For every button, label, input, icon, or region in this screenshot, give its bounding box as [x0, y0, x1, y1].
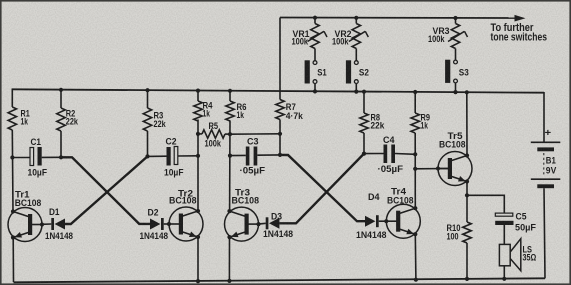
wire: R2 column: [60, 90, 62, 108]
wire: positive supply rail (top horizontal): [12, 89, 544, 92]
wire: tone bus (top rail) with arrow: [280, 17, 517, 20]
wire: link from R5 junction to R7 column: [230, 133, 280, 135]
resistor R5 100k (horizontal): [198, 121, 230, 150]
node: C3 right junction: [278, 153, 282, 157]
wire: R9 / Tr4 collector column: [414, 92, 416, 113]
node: C4 right junction: [413, 152, 417, 156]
wire: Tr5 emitter to node: [466, 182, 468, 196]
wire: R4 / Tr2 collector column: [197, 91, 199, 102]
wire: cross-coupling diagonal from R2/C1 node to D2: [61, 157, 150, 224]
node: R2/C1 junction: [59, 155, 63, 159]
potentiometer VR3 100k: [428, 16, 468, 60]
wire: battery column top: [543, 92, 545, 142]
resistor R4 1k: [194, 101, 213, 122]
wire: Tr2 emitter to ground: [197, 237, 199, 281]
resistor R6 1k: [226, 101, 247, 121]
node: R5 left junction on Tr2 collector column: [196, 132, 200, 136]
wire: Tr3 emitter to ground: [228, 237, 230, 281]
resistor R1 1k: [8, 107, 30, 130]
wire: Tr5 base lead: [415, 168, 448, 170]
potentiometer VR2 100k: [332, 16, 368, 61]
wire: cross-coupling diagonal from R3/C2 node to D1: [65, 156, 148, 224]
wire: R3 column: [147, 90, 149, 108]
resistor R2 22k: [57, 108, 79, 131]
wire: C5 to loudspeaker: [503, 225, 505, 244]
transistor Tr2 BC108: [167, 188, 203, 241]
wire: emitter node to C5 branch: [467, 195, 504, 213]
switch S1: [305, 60, 328, 93]
node: Tr5 base junction: [413, 167, 417, 171]
wire: R6 / Tr3 collector column: [229, 91, 231, 101]
loudspeaker LS 35ohm: [499, 239, 536, 271]
transistor Tr5 BC108: [436, 131, 472, 186]
node: link/R7 junction: [278, 132, 282, 136]
wire: Tr1 emitter to ground rail: [12, 238, 14, 283]
wire: R7 column (from tone bus corner down): [279, 18, 281, 100]
wire: ground rail (bottom horizontal): [14, 278, 546, 282]
wire: cross-coupling diagonal from C3/R7 node to D4: [280, 155, 365, 221]
switch S3: [445, 60, 469, 94]
resistor R10 100: [447, 195, 472, 279]
transistor Tr1 BC108: [8, 190, 44, 242]
switch S2: [346, 60, 369, 93]
resistor R9 1k: [411, 113, 430, 134]
battery B1 9V: [531, 128, 561, 188]
capacitor C1 10uF: [12, 137, 61, 179]
capacitor C5 50uF: [495, 212, 536, 234]
wire: battery column bottom: [544, 188, 545, 278]
wire: left column (Tr1 collector / R1 / C1 node): [11, 89, 13, 108]
wire: cross-coupling diagonal from C4/R8 node to D3: [279, 154, 364, 224]
node: C3 left junction: [228, 154, 232, 158]
resistor R3 22k: [143, 108, 166, 131]
potentiometer VR1 100k: [292, 16, 328, 61]
wire: loudspeaker to ground rail: [503, 266, 505, 279]
node: emitter / R10 / C5 junction: [465, 193, 469, 197]
diode D3 1N4148: [259, 211, 294, 240]
resistor R7 4.7k: [276, 100, 304, 123]
node: R3/C2 junction: [145, 154, 149, 158]
wire: Tr4 emitter to ground: [414, 234, 417, 280]
capacitor C3 .05uF: [230, 137, 280, 177]
capacitor C2 10uF: [148, 137, 199, 179]
resistor R8 22k: [360, 113, 385, 134]
capacitor C4 .05uF: [364, 135, 415, 175]
node: C4 left junction: [362, 152, 366, 156]
wire: Tr5 collector column: [466, 92, 468, 155]
transistor Tr3 BC108: [225, 187, 261, 241]
diode D1 1N4148: [42, 207, 74, 242]
wire: R8 column: [363, 92, 365, 113]
node: C1 left junction: [10, 155, 14, 159]
node: R5 right junction: [228, 132, 232, 136]
transistor Tr4 BC108: [384, 187, 420, 239]
node: C2 right junction: [196, 154, 200, 158]
diode D4 1N4148: [356, 192, 387, 241]
diode D2 1N4148: [140, 208, 170, 243]
